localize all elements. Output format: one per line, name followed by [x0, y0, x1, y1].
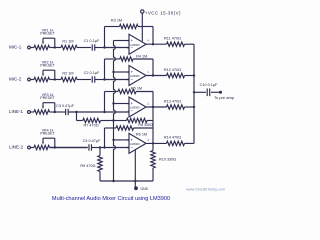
svg-text:LINE-2: LINE-2: [9, 144, 24, 149]
svg-text:R10 330Ω: R10 330Ω: [159, 157, 176, 161]
svg-text:PRESET: PRESET: [40, 132, 55, 136]
svg-text:R7 470Ω: R7 470Ω: [83, 124, 98, 128]
svg-text:C4 0.47µF: C4 0.47µF: [83, 139, 101, 143]
svg-text:C10 0.1µF: C10 0.1µF: [200, 83, 218, 87]
svg-text:+: +: [130, 101, 133, 106]
svg-text:R2 1M: R2 1M: [62, 71, 73, 75]
svg-text:+: +: [130, 137, 133, 142]
svg-text:R8 330Ω: R8 330Ω: [138, 123, 153, 127]
svg-text:+: +: [130, 38, 133, 43]
svg-text:PRESET: PRESET: [40, 64, 55, 68]
svg-text:PRESET: PRESET: [40, 96, 55, 100]
svg-text:+VCC 15-30(V): +VCC 15-30(V): [145, 11, 181, 16]
svg-text:C1 0.1µF: C1 0.1µF: [84, 39, 100, 43]
svg-text:LM3900: LM3900: [130, 142, 140, 146]
svg-text:R14 470Ω: R14 470Ω: [164, 136, 181, 140]
svg-text:C3 0.47µF: C3 0.47µF: [56, 104, 74, 108]
svg-text:R1 1M: R1 1M: [62, 39, 73, 43]
svg-text:LINE-1: LINE-1: [9, 109, 24, 114]
svg-text:+: +: [130, 70, 133, 75]
svg-text:R6 1M: R6 1M: [136, 132, 147, 136]
svg-text:www.CircuitsToday.com: www.CircuitsToday.com: [186, 187, 225, 191]
svg-text:R13 470Ω: R13 470Ω: [164, 99, 181, 103]
svg-text:LM3900: LM3900: [130, 74, 140, 78]
svg-text:R3 1M: R3 1M: [111, 19, 122, 23]
svg-text:C2 0.1µF: C2 0.1µF: [84, 71, 100, 75]
svg-text:LM3900: LM3900: [130, 43, 140, 47]
svg-text:To pre amp: To pre amp: [214, 95, 235, 100]
svg-text:GND: GND: [141, 187, 149, 191]
svg-text:R12 470Ω: R12 470Ω: [164, 68, 181, 72]
svg-text:R11 470Ω: R11 470Ω: [164, 37, 181, 41]
svg-text:PRESET: PRESET: [40, 32, 55, 36]
svg-text:R4 1M: R4 1M: [136, 54, 147, 58]
svg-text:MIC-1: MIC-1: [9, 44, 22, 49]
svg-text:Multi-channel Audio Mixer Circ: Multi-channel Audio Mixer Circuit using …: [52, 196, 170, 202]
svg-text:MIC-2: MIC-2: [9, 76, 22, 81]
svg-text:LM3900: LM3900: [130, 106, 140, 110]
svg-text:R9 470Ω: R9 470Ω: [80, 164, 95, 168]
svg-text:R5 1M: R5 1M: [131, 87, 142, 91]
